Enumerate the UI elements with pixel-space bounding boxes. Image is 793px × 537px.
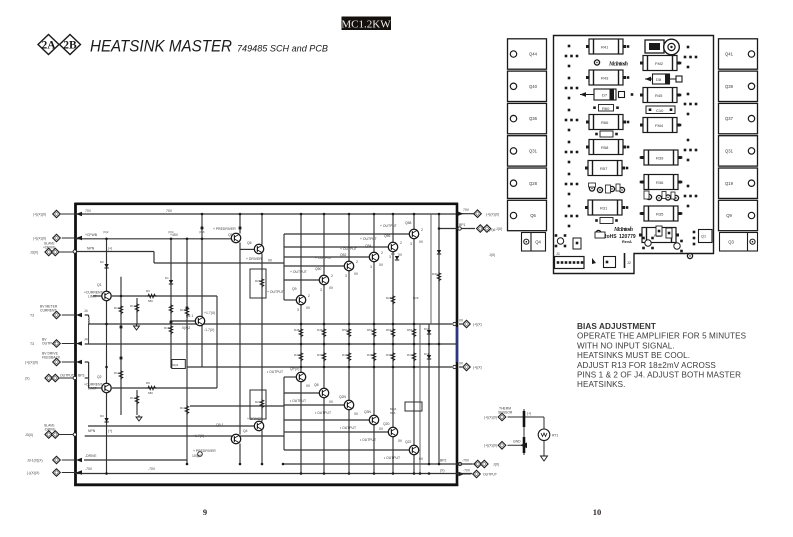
svg-text:0V: 0V [329,400,334,404]
svg-text:D10: D10 [424,327,430,331]
svg-text:0(X)2: 0(X)2 [182,326,190,330]
svg-text:HEATSINKS.: HEATSINKS. [577,380,626,389]
svg-text:OPERATE THE AMPLIFIER FOR 5 MI: OPERATE THE AMPLIFIER FOR 5 MINUTES [577,332,747,341]
svg-text:R28: R28 [386,296,392,300]
svg-text:R66: R66 [601,120,609,125]
svg-text:FM2: FM2 [655,61,664,66]
svg-text:Q4: Q4 [243,429,248,433]
svg-text:0V: 0V [306,306,311,310]
svg-text:J2: J2 [627,261,631,265]
svg-text:R51: R51 [367,328,373,332]
svg-text:0V: 0V [398,253,403,257]
svg-text:BP3: BP3 [78,374,85,378]
svg-text:0V: 0V [398,439,403,443]
svg-text:(+)(X)(X): (+)(X)(X) [25,360,38,364]
svg-text:R53: R53 [407,328,413,332]
svg-text:70V: 70V [166,209,173,213]
svg-text:R42: R42 [294,353,300,357]
svg-text:BP2: BP2 [440,459,447,463]
svg-text:0V: 0V [268,259,273,263]
svg-text:-DRIVE: -DRIVE [44,428,56,432]
svg-text:R29: R29 [413,296,419,300]
svg-text:J4: J4 [84,338,88,342]
svg-text:GND: GND [513,440,521,444]
svg-text:Q4: Q4 [535,240,541,245]
svg-text:749485 SCH and PCB: 749485 SCH and PCB [237,44,329,55]
svg-text:-70V: -70V [148,467,156,471]
svg-text:(+)(X)(X): (+)(X)(X) [484,415,497,419]
svg-text:Q3N: Q3N [364,410,372,414]
svg-text:(X): (X) [25,376,30,380]
svg-text:+ PREDRIVER: + PREDRIVER [193,449,216,453]
svg-text:J1: J1 [556,252,560,256]
svg-text:Q22: Q22 [405,440,412,444]
svg-text:3: 3 [297,308,299,312]
svg-text:Q31: Q31 [529,149,538,154]
svg-text:+CFWB: +CFWB [85,233,98,237]
svg-text:Q39: Q39 [725,84,734,89]
svg-text:(X)6: (X)6 [199,230,205,234]
svg-text:J3(X): J3(X) [25,433,33,437]
svg-text:+ DRIVER: + DRIVER [246,257,262,261]
svg-text:ADJUST R13 FOR 18±2mV ACROSS: ADJUST R13 FOR 18±2mV ACROSS [577,361,716,370]
svg-text:2: 2 [356,260,358,264]
svg-text:D7: D7 [602,93,608,98]
svg-text:0V: 0V [419,457,424,461]
svg-text:Q52: Q52 [340,253,347,257]
svg-text:R17: R17 [180,406,186,410]
svg-text:3: 3 [345,274,347,278]
svg-text:+ OUTPUT: + OUTPUT [340,247,357,251]
svg-text:McIntosh: McIntosh [608,62,628,68]
svg-text:LIMIT: LIMIT [88,295,97,299]
svg-text:(+)(X): (+)(X) [473,322,482,326]
svg-text:D4: D4 [391,252,395,256]
svg-text:R15: R15 [164,326,170,330]
svg-text:+1.7(X): +1.7(X) [193,434,204,438]
svg-text:+ DRIVER: + DRIVER [247,417,263,421]
svg-text:0V: 0V [354,412,359,416]
svg-text:Q1: Q1 [97,283,102,287]
svg-text:Q36: Q36 [529,116,538,121]
svg-text:2: 2 [421,228,423,232]
svg-text:R58: R58 [601,145,609,150]
svg-text:Q40: Q40 [529,84,538,89]
svg-text:+1.7(X): +1.7(X) [204,311,215,315]
svg-text:BIAS ADJUSTMENT: BIAS ADJUSTMENT [577,322,656,331]
svg-text:2: 2 [381,251,383,255]
svg-text:2B: 2B [63,40,77,52]
svg-text:2: 2 [400,241,402,245]
svg-text:MC1.2KW: MC1.2KW [341,19,391,31]
svg-text:(X)2: (X)2 [103,230,109,234]
svg-text:CURRENT: CURRENT [40,309,57,313]
svg-text:2A: 2A [41,40,56,52]
svg-text:R41: R41 [601,45,609,50]
svg-text:+ OUTPUT: + OUTPUT [267,290,284,294]
svg-text:HEATSINK MASTER: HEATSINK MASTER [90,38,232,56]
svg-text:HEATSINKS MUST BE COOL.: HEATSINKS MUST BE COOL. [577,351,690,360]
svg-text:R26: R26 [255,279,261,283]
svg-text:10: 10 [593,507,602,517]
svg-text:Q3: Q3 [728,240,734,245]
svg-text:FM4: FM4 [655,123,664,128]
svg-text:FEEDBACK: FEEDBACK [42,356,61,360]
svg-text:R50: R50 [342,328,348,332]
svg-text:• OUTPUT: • OUTPUT [384,456,400,460]
svg-text:0V: 0V [354,272,359,276]
svg-text:R49: R49 [317,328,323,332]
svg-text:(-)(X)(X): (-)(X)(X) [27,471,39,475]
svg-text:0V: 0V [459,362,464,366]
svg-text:Q9 1: Q9 1 [216,423,223,427]
svg-text:McIntosh: McIntosh [613,227,633,233]
svg-text:J4: J4 [84,309,88,313]
svg-text:Q2: Q2 [97,375,102,379]
svg-text:R36: R36 [656,180,664,185]
svg-text:Q5: Q5 [228,233,233,237]
svg-text:R12: R12 [130,304,136,308]
svg-text:D11: D11 [424,352,429,356]
svg-text:3: 3 [320,288,322,292]
svg-text:R40: R40 [432,272,438,276]
svg-text:Q44: Q44 [529,52,538,57]
svg-text:(+)(X)(X): (+)(X)(X) [484,444,497,448]
svg-text:Q37: Q37 [725,116,734,121]
svg-text:680: 680 [148,391,153,395]
svg-text:Q6: Q6 [530,213,536,218]
svg-text:T3: T3 [30,342,34,346]
svg-text:(+): (+) [108,429,112,433]
svg-text:Q50: Q50 [315,267,322,271]
svg-text:0V: 0V [306,384,311,388]
svg-text:WITH NO INPUT SIGNAL.: WITH NO INPUT SIGNAL. [577,341,675,350]
svg-text:D1: D1 [165,276,169,280]
svg-text:R16: R16 [180,308,186,312]
svg-text:100pF: 100pF [192,454,202,458]
svg-text:R52: R52 [386,328,392,332]
svg-text:(+)(X)(X): (+)(X)(X) [33,236,46,240]
svg-text:J3-1(X)(X): J3-1(X)(X) [27,458,43,462]
svg-text:70V: 70V [463,208,470,212]
svg-text:5KA: 5KA [390,411,396,415]
svg-text:R10: R10 [114,306,120,310]
svg-text:R46: R46 [386,353,392,357]
svg-text:R3: R3 [146,289,150,293]
svg-text:Q54: Q54 [365,244,372,248]
svg-text:PINS 1 & 2 OF J4. ADJUST BOTH: PINS 1 & 2 OF J4. ADJUST BOTH MASTER [577,371,741,380]
svg-text:-70V: -70V [462,459,470,463]
svg-text:NPN: NPN [87,247,95,251]
svg-text:Q28: Q28 [529,181,538,186]
svg-text:R44: R44 [342,353,348,357]
svg-text:+ OUTPUT: + OUTPUT [315,256,332,260]
svg-text:R39: R39 [656,156,664,161]
svg-text:R45: R45 [367,353,373,357]
svg-text:C10: C10 [656,108,664,113]
svg-text:• OUTPUT: • OUTPUT [290,399,306,403]
svg-text:(+)(X)(X): (+)(X)(X) [486,212,499,216]
svg-text:(X)4: (X)4 [168,230,174,234]
svg-text:Q9: Q9 [292,287,297,291]
svg-text:-1.7(X): -1.7(X) [204,328,214,332]
svg-text:RevA: RevA [622,240,632,244]
svg-text:(+): (+) [108,247,112,251]
svg-text:(+): (+) [527,412,531,416]
svg-text:• OUTPUT: • OUTPUT [360,438,376,442]
svg-text:MQ2: MQ2 [172,363,179,367]
svg-text:R48: R48 [294,328,300,332]
svg-text:Q1: Q1 [701,235,706,239]
svg-text:SENSOR: SENSOR [498,411,513,415]
svg-text:2: 2 [331,274,333,278]
svg-text:LIMIT: LIMIT [88,387,97,391]
svg-text:(+)(X): (+)(X) [473,365,482,369]
svg-text:D8: D8 [656,77,662,82]
svg-text:J(X): J(X) [489,253,495,257]
svg-text:+DRIVE: +DRIVE [43,246,56,250]
svg-text:R43: R43 [601,76,609,81]
svg-text:OUTPUT: OUTPUT [60,374,74,378]
svg-text:R9: R9 [146,381,150,385]
svg-text:+ OUTPUT: + OUTPUT [290,270,307,274]
svg-text:Q2N: Q2N [339,395,347,399]
svg-text:680: 680 [148,299,153,303]
svg-text:OUTPUT: OUTPUT [483,472,497,476]
svg-text:0V: 0V [379,263,384,267]
svg-text:0V: 0V [329,286,334,290]
svg-text:R27: R27 [255,400,261,404]
svg-text:D2: D2 [100,260,104,264]
svg-text:Q8: Q8 [314,383,319,387]
svg-text:0V: 0V [419,240,424,244]
svg-text:NPN: NPN [88,429,96,433]
svg-text:• OUTPUT: • OUTPUT [340,426,356,430]
svg-text:T3: T3 [30,313,34,317]
svg-text:Q20: Q20 [383,422,390,426]
svg-text:QP(X): QP(X) [290,367,299,371]
svg-text:J(X): J(X) [496,227,502,231]
svg-text:J3(X): J3(X) [30,250,38,254]
svg-text:2: 2 [308,294,310,298]
svg-text:J(X): J(X) [493,462,499,466]
svg-text:• OUTPUT: • OUTPUT [267,370,283,374]
svg-text:OUTPUT: OUTPUT [42,342,56,346]
svg-text:R35: R35 [656,212,664,217]
svg-text:Q56: Q56 [384,234,391,238]
svg-text:3: 3 [410,242,412,246]
svg-text:Q9: Q9 [726,213,732,218]
svg-text:RT1: RT1 [552,434,558,438]
svg-text:0V: 0V [459,319,464,323]
svg-text:-DRIVE: -DRIVE [85,454,97,458]
svg-text:70V: 70V [85,209,92,213]
svg-text:+ PREDRIVER: + PREDRIVER [213,227,236,231]
svg-text:Q4 1: Q4 1 [186,314,193,318]
svg-text:+ OUTPUT: + OUTPUT [360,237,377,241]
svg-text:-70V: -70V [463,469,471,473]
svg-text:R45: R45 [655,93,663,98]
svg-text:(+)(X)(X): (+)(X)(X) [33,212,46,216]
svg-text:9: 9 [203,507,207,517]
svg-text:+ OUTPUT: + OUTPUT [380,224,397,228]
svg-text:Q58: Q58 [405,221,412,225]
svg-text:(X): (X) [440,469,445,473]
svg-text:Q19: Q19 [725,181,734,186]
svg-text:R47: R47 [407,353,413,357]
svg-text:-70V: -70V [85,467,93,471]
svg-text:Q31: Q31 [725,149,734,154]
svg-text:R13: R13 [130,396,136,400]
svg-text:Q6: Q6 [247,241,252,245]
svg-text:• OUTPUT: • OUTPUT [315,411,331,415]
svg-text:0V: 0V [379,427,384,431]
svg-text:R43: R43 [317,353,323,357]
svg-text:R60: R60 [602,106,610,111]
svg-text:BP1: BP1 [459,223,466,227]
svg-text:D3: D3 [100,414,104,418]
svg-text:R31: R31 [600,206,608,211]
svg-text:R11: R11 [114,371,119,375]
svg-text:R57: R57 [600,166,608,171]
svg-text:Q41: Q41 [725,52,734,57]
svg-text:3: 3 [370,265,372,269]
